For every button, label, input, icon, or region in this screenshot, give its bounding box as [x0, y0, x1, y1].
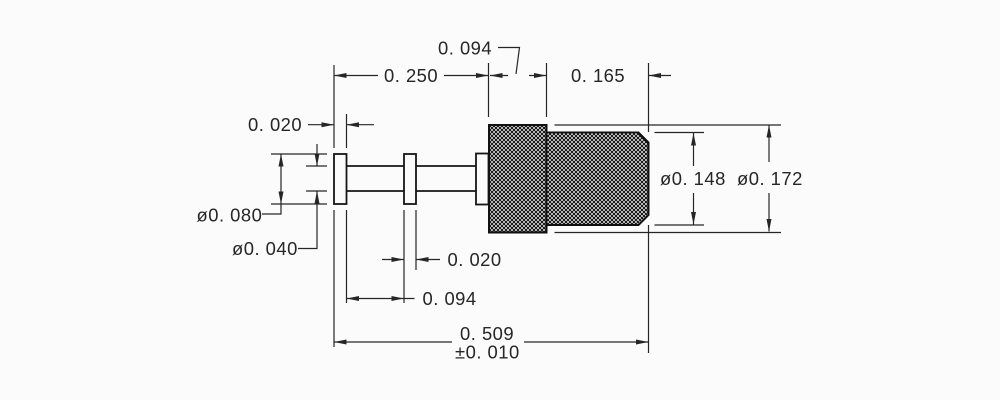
dimension 0.165 right arrow tail [649, 75, 672, 77]
arrowhead 0.020 top left [322, 122, 335, 127]
svg-text:0. 165: 0. 165 [571, 65, 625, 86]
knurl block 2 (ø0.148, 0.165 long, chamfered) [547, 133, 649, 226]
arrowhead 0.509 left [334, 340, 347, 345]
svg-text:ø0. 148: ø0. 148 [660, 168, 726, 189]
dimension line 0.250 [334, 75, 378, 77]
extension line: knurl2 top (ø0.148) [655, 132, 705, 134]
dimension ø0.172 line [768, 125, 770, 162]
dimension 0.509 line [334, 341, 452, 343]
arrowhead ø0.080 up [279, 154, 284, 167]
dimension 0.094 arrow tails [490, 75, 508, 77]
svg-text:0. 250: 0. 250 [384, 65, 438, 86]
arrowhead 0.165 right [649, 73, 662, 78]
arrowhead ø0.172 up [767, 125, 772, 138]
arrowhead ø0.172 down [767, 219, 772, 232]
svg-text:0. 094: 0. 094 [423, 288, 477, 309]
extension line: flange OD bottom (ø0.080) [271, 203, 327, 205]
extension line: flange1 right, top (0.020) [346, 114, 348, 148]
dimension texts [197, 38, 803, 363]
extension line: shaft bottom (ø0.040) [306, 190, 327, 192]
svg-text:ø0. 040: ø0. 040 [232, 238, 298, 259]
extension line: flange1 left, bottom (0.509) [333, 210, 335, 347]
collar at knurl [476, 154, 489, 205]
extension line: knurl1 bottom (ø0.172) [555, 232, 782, 234]
arrowhead 0.250 left [334, 73, 347, 78]
extension line: flange2 left, bottom (0.094 / 0.020) [403, 210, 405, 303]
extension line: knurl1 top (ø0.172) [555, 124, 782, 126]
dimension 0.020 top arrow tails [308, 124, 334, 126]
shaft (ø0.040) [347, 165, 405, 167]
svg-text:0. 020: 0. 020 [448, 249, 502, 270]
svg-text:ø0. 080: ø0. 080 [197, 205, 263, 226]
arrowhead ø0.040 up [315, 191, 320, 204]
extension line: shaft top (ø0.040) [306, 165, 327, 167]
dimension 0.094 leader [498, 48, 520, 75]
svg-text:±0. 010: ±0. 010 [455, 342, 520, 363]
arrowhead ø0.148 up [691, 133, 696, 146]
arrowhead ø0.148 down [691, 212, 696, 225]
knurl block 1 (ø0.172, 0.094 long) [489, 125, 547, 233]
extension line: knurl1 left (0.250 / 0.094) [488, 63, 490, 117]
extension line: knurl2 right, top (0.165) [648, 63, 650, 132]
arrowhead ø0.040 down [315, 154, 320, 167]
dimension ø0.080 line + leader [262, 154, 281, 214]
arrowhead 0.250 right [476, 73, 489, 78]
dimension ø0.040 line bottom + leader [298, 191, 317, 249]
dimension ø0.040 line top [316, 144, 318, 166]
flange F2 (0.020 wide) [404, 154, 416, 204]
arrowhead 0.094 right [534, 73, 547, 78]
arrowhead 0.509 right [636, 340, 649, 345]
extension line: flange1 left, top (0.250 / 0.020) [333, 65, 335, 148]
flange F1 (ø0.080, 0.020 wide) [334, 154, 347, 204]
extension line: flange2 right, bottom (0.020) [415, 210, 417, 270]
part outline [334, 154, 489, 205]
arrowhead ø0.080 down [279, 192, 284, 205]
arrowhead 0.020 bottom right [416, 257, 429, 262]
dimension 0.020 bottom arrow tails [382, 259, 404, 261]
arrowhead 0.094 left [490, 73, 503, 78]
arrowhead 0.020 top right [347, 122, 360, 127]
dimension 0.094 bottom line [347, 298, 415, 300]
svg-text:ø0. 172: ø0. 172 [737, 168, 803, 189]
extension line: flange OD top (ø0.080) [271, 153, 327, 155]
extension line: knurl2 bottom (ø0.148) [655, 224, 705, 226]
extension line: knurl1 right (0.094 / 0.165) [546, 63, 548, 117]
extension line: flange1 right, bottom (0.094) [346, 210, 348, 303]
arrowhead 0.094 bottom left [347, 296, 360, 301]
extension line: knurl2 right, bottom (0.509) [648, 225, 650, 353]
svg-text:0. 094: 0. 094 [438, 38, 492, 59]
arrowhead 0.094 bottom right [392, 296, 405, 301]
svg-text:0. 020: 0. 020 [248, 114, 302, 135]
dimension ø0.148 line [693, 133, 695, 166]
arrowhead 0.020 bottom left [392, 257, 405, 262]
